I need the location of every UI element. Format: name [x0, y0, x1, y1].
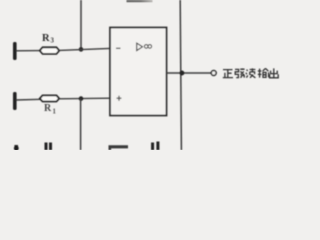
svg-text:R: R	[44, 103, 52, 114]
bottom crop fragment: capacitor plates pair 2	[153, 142, 158, 151]
bottom crop fragment: component top bar	[109, 145, 129, 148]
svg-text:3: 3	[51, 38, 55, 45]
node C (junction on output wire)	[179, 71, 184, 76]
node B (junction dot on lower rail)	[79, 96, 84, 101]
infinity glyph	[144, 45, 148, 49]
wire: R3 to op-amp inverting input	[59, 48, 110, 50]
ink speck bottom-left	[14, 146, 19, 151]
pin label plus	[117, 96, 122, 101]
resistor R3	[40, 47, 59, 54]
terminal lower-left	[13, 92, 17, 110]
char 正	[223, 70, 233, 78]
pin label minus	[116, 47, 121, 49]
paper background	[0, 0, 300, 150]
wire: right vertical bus top to bottom	[180, 0, 181, 150]
terminal upper-left	[13, 42, 17, 60]
bottom crop fragment: capacitor plates pair 1	[46, 143, 51, 151]
char 输	[258, 68, 269, 77]
bottom crop fragment: stub at bar left end	[109, 147, 112, 150]
resistor R1	[40, 95, 59, 101]
op-amp U1 (box symbol)	[110, 28, 167, 116]
wire: vertical feed to upper rail node	[80, 0, 82, 50]
output terminal circle	[211, 71, 216, 76]
node A (junction dot on upper rail)	[79, 47, 84, 52]
wire: lower terminal to R1	[16, 98, 41, 101]
label: sine wave output text 正弦波输出 (drawn strokes)	[223, 68, 278, 78]
bottom crop fragment: terminal bar below lower-left terminal	[14, 145, 18, 150]
amplifier triangle glyph	[137, 43, 143, 51]
wire: upper terminal to R3	[16, 50, 41, 52]
svg-text:R: R	[42, 33, 50, 44]
char 出	[270, 68, 279, 78]
component fragment above crop (bottom edge of part above op-amp)	[127, 0, 153, 2]
svg-text:1: 1	[53, 109, 57, 116]
wire: R1 to op-amp non-inverting input	[59, 97, 110, 100]
char 弦	[235, 68, 245, 77]
wire: lower node down off crop	[80, 99, 82, 150]
char 波	[246, 68, 256, 77]
wire: op-amp output to terminal	[167, 72, 212, 74]
